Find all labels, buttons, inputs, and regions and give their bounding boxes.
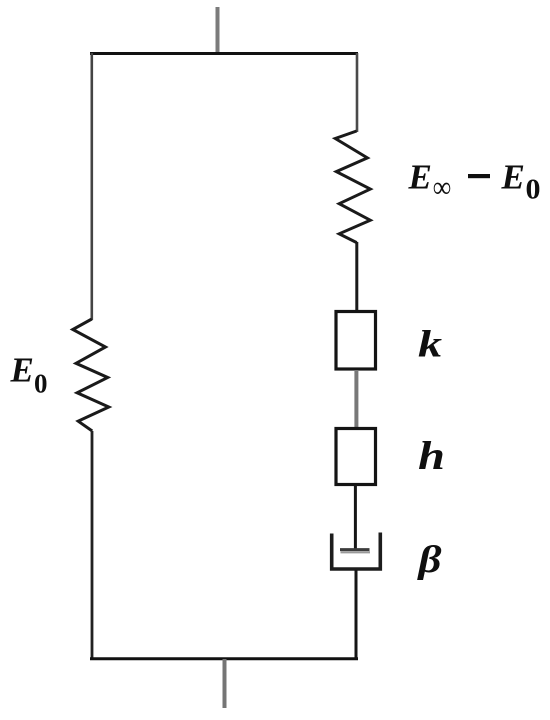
left branch lower wire (91, 431, 94, 659)
box h (friction element) (336, 429, 376, 485)
dashpot piston plate (340, 550, 370, 553)
svg-text:k: k (418, 324, 442, 366)
svg-text:E: E (10, 351, 34, 390)
svg-text:0: 0 (34, 369, 48, 399)
right branch upper wire (356, 53, 359, 132)
svg-text:β: β (416, 539, 442, 581)
svg-text:∞: ∞ (433, 171, 451, 204)
dashpot cup (332, 533, 381, 570)
svg-text:E: E (408, 158, 432, 197)
left branch upper wire (91, 53, 94, 320)
bottom terminal wire (223, 659, 227, 708)
spring Einf-E0 (335, 131, 370, 243)
spring E0 (73, 319, 109, 431)
label Einf - E0 (408, 158, 541, 206)
bottom wire (90, 657, 358, 660)
svg-text:0: 0 (526, 174, 541, 206)
wire dashpot to bottom (355, 570, 358, 659)
svg-text:E: E (501, 158, 525, 197)
label E0 (10, 351, 48, 399)
box k (friction element) (336, 312, 376, 370)
wire box k to box h (354, 370, 358, 428)
svg-text:h: h (418, 433, 445, 478)
top terminal wire (216, 7, 220, 53)
top wire (90, 52, 358, 55)
wire box h to dashpot piston (354, 485, 357, 550)
wire spring to box k (355, 242, 358, 311)
